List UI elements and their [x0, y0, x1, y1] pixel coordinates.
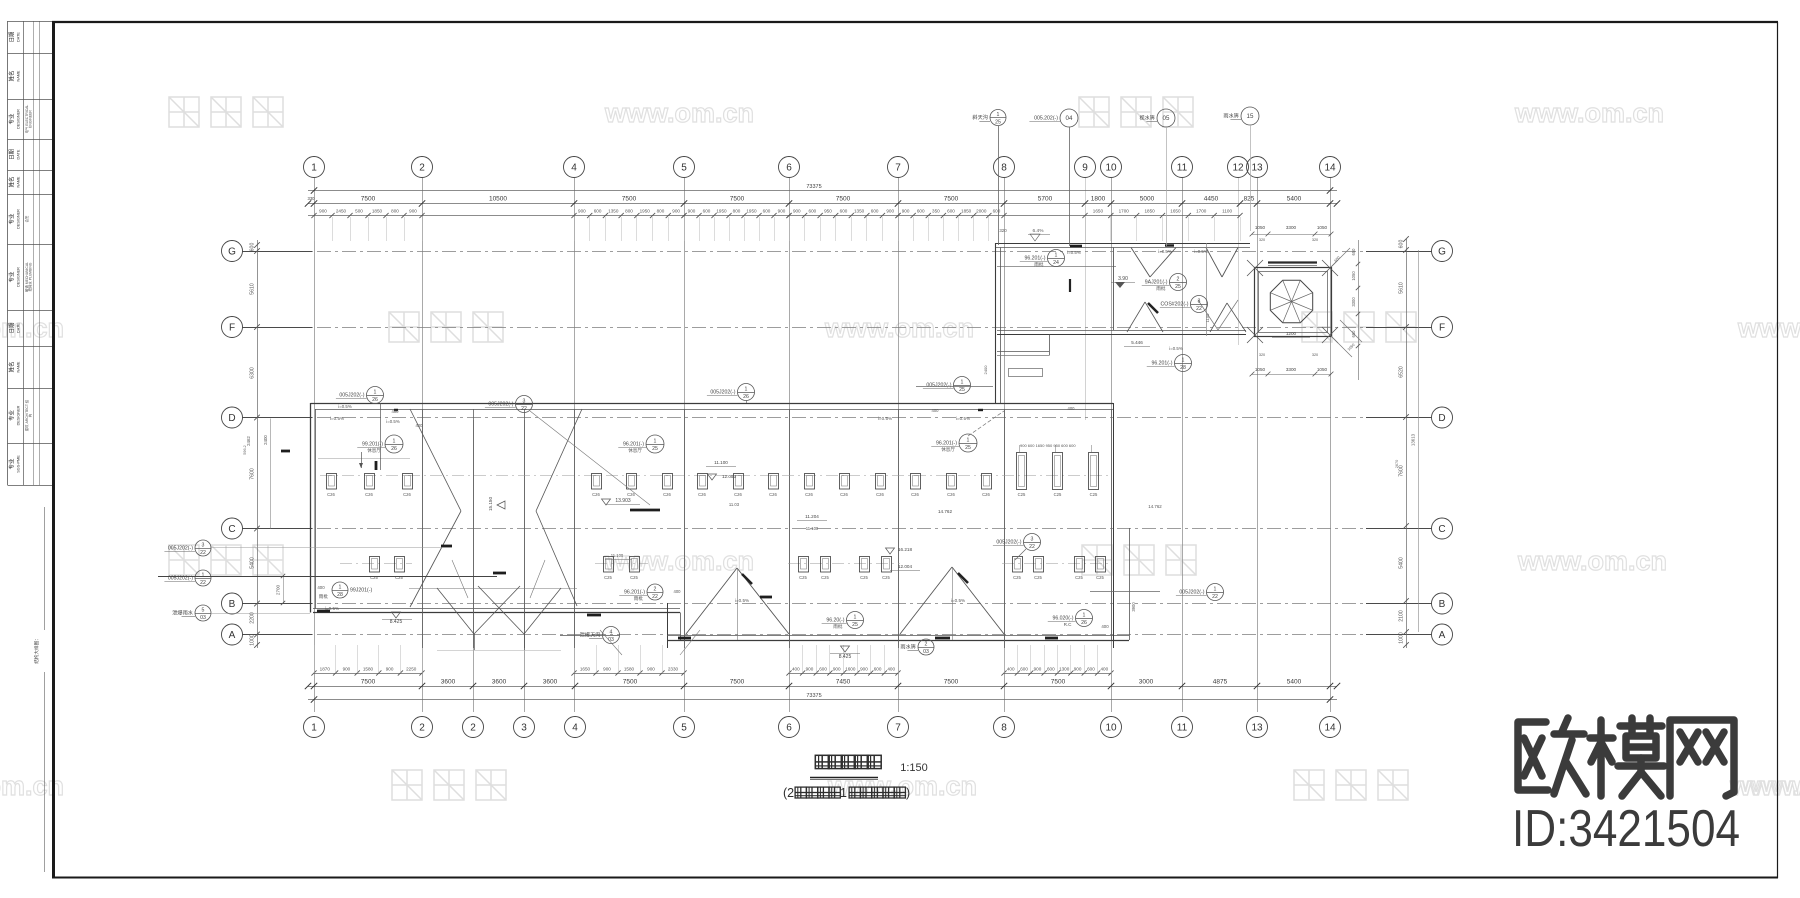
- svg-text:1350: 1350: [608, 209, 619, 214]
- site logo 欧模网: [1518, 718, 1734, 796]
- svg-text:22: 22: [521, 406, 527, 412]
- svg-text:900: 900: [902, 209, 910, 214]
- svg-text:2000: 2000: [976, 209, 987, 214]
- svg-text:400: 400: [1068, 406, 1076, 411]
- svg-text:900: 900: [578, 209, 586, 214]
- svg-text:7450: 7450: [836, 679, 851, 686]
- svg-text:C25: C25: [395, 575, 403, 580]
- svg-text:D: D: [228, 413, 235, 424]
- svg-text:22: 22: [1212, 594, 1218, 600]
- svg-text:C26: C26: [769, 492, 777, 497]
- svg-text:16.218: 16.218: [898, 547, 912, 552]
- svg-text:专业: 专业: [8, 410, 16, 421]
- svg-text:800: 800: [391, 209, 399, 214]
- building bottom edge left section: [313, 609, 680, 613]
- svg-text:3000: 3000: [1139, 679, 1154, 686]
- svg-text:11: 11: [1177, 722, 1188, 733]
- callout 005J202 1-25 at grid7: [923, 377, 971, 394]
- svg-text:15: 15: [1247, 113, 1254, 120]
- svg-text:14: 14: [1324, 162, 1336, 173]
- svg-text:650: 650: [1351, 248, 1356, 256]
- row bubble F left: [222, 317, 243, 338]
- svg-text:25: 25: [959, 387, 965, 393]
- svg-text:3: 3: [202, 542, 205, 548]
- grid bubble 13 top: [1247, 157, 1268, 178]
- svg-text:雨水箅: 雨水箅: [1223, 112, 1239, 120]
- site logo id number: [1512, 800, 1740, 858]
- svg-text:SGS-PME: SGS-PME: [17, 455, 21, 473]
- svg-text:6300: 6300: [250, 367, 256, 379]
- callout 05 top: [1139, 109, 1175, 127]
- svg-text:28: 28: [337, 592, 343, 598]
- svg-text:10: 10: [1105, 162, 1117, 173]
- svg-text:900: 900: [778, 209, 786, 214]
- svg-text:3600: 3600: [492, 679, 507, 686]
- svg-text:7500: 7500: [361, 196, 376, 203]
- svg-text:6: 6: [786, 722, 792, 733]
- tower dimension right column: [1351, 240, 1360, 380]
- svg-text:ENGINEER: ENGINEER: [29, 110, 33, 128]
- svg-text:7500: 7500: [944, 196, 959, 203]
- svg-text:www.om.cn: www.om.cn: [1517, 546, 1667, 576]
- callout 96.020 bottom right: [1048, 610, 1093, 628]
- svg-text:1050: 1050: [1317, 367, 1328, 372]
- svg-text:3.90: 3.90: [1118, 276, 1128, 282]
- grid bubble 8 bottom: [994, 717, 1015, 738]
- svg-text:D: D: [1438, 413, 1445, 424]
- svg-text:C25: C25: [799, 575, 807, 580]
- canopy edge and valleys below left section: [409, 586, 577, 650]
- svg-text:3: 3: [523, 398, 526, 404]
- callout 斜天沟 top: [972, 110, 1006, 126]
- grid bubble 3 bottom: [514, 717, 535, 738]
- left dimension column: [243, 240, 285, 648]
- svg-text:25: 25: [965, 445, 971, 451]
- watermark 欧模网: [169, 545, 283, 575]
- svg-text:i=0.5%: i=0.5%: [735, 598, 749, 603]
- svg-text:B: B: [1439, 599, 1446, 610]
- svg-text:900: 900: [1074, 667, 1082, 672]
- building right wall: [1114, 403, 1130, 648]
- callout 005J202 3-22: [485, 396, 533, 413]
- svg-text:2700: 2700: [276, 584, 281, 595]
- svg-text:2200: 2200: [250, 612, 256, 624]
- svg-text:i=0.5%: i=0.5%: [386, 419, 400, 424]
- drawing title 屋顶平面图 1:150: [810, 755, 928, 779]
- callout 99J201 bottom left: [319, 582, 373, 600]
- svg-text:12.053: 12.053: [722, 474, 736, 479]
- svg-text:22: 22: [200, 550, 206, 556]
- svg-text:C26: C26: [663, 492, 671, 497]
- svg-text:1: 1: [840, 786, 847, 800]
- svg-text:1: 1: [745, 386, 748, 392]
- svg-text:www.om.cn: www.om.cn: [824, 313, 974, 343]
- svg-text:005.202(-): 005.202(-): [1034, 116, 1058, 122]
- svg-text:1050: 1050: [1317, 225, 1328, 230]
- drawing subtitle: [783, 786, 910, 800]
- wing gutter tab: [1009, 369, 1043, 377]
- grid line dark segments inside building: [423, 409, 1112, 648]
- svg-text:900: 900: [886, 209, 894, 214]
- svg-text:900: 900: [793, 209, 801, 214]
- svg-text:i=0.5%: i=0.5%: [1067, 250, 1081, 255]
- svg-text:14.762: 14.762: [938, 509, 952, 514]
- svg-text:7500: 7500: [623, 679, 638, 686]
- svg-text:2: 2: [419, 162, 425, 173]
- svg-text:C26: C26: [592, 492, 600, 497]
- row bubble D left: [222, 407, 243, 428]
- svg-text:i=0.5%: i=0.5%: [878, 416, 892, 421]
- svg-text:12: 12: [1232, 162, 1244, 173]
- svg-text:1850: 1850: [372, 209, 383, 214]
- svg-text:4450: 4450: [1204, 196, 1219, 203]
- svg-text:1580: 1580: [363, 667, 374, 672]
- svg-text:400: 400: [1101, 624, 1109, 629]
- svg-text:3900: 3900: [1131, 602, 1136, 612]
- grid bubble 7 bottom: [888, 717, 909, 738]
- svg-text:(2: (2: [783, 786, 794, 800]
- svg-text:99.201(-): 99.201(-): [362, 442, 383, 448]
- svg-text:1950: 1950: [746, 209, 757, 214]
- building step wall at grid 5: [668, 603, 681, 648]
- svg-text:600: 600: [819, 667, 827, 672]
- svg-text:14: 14: [1324, 722, 1336, 733]
- vent row centerline 1: [320, 475, 1108, 477]
- svg-text:5: 5: [681, 162, 687, 173]
- svg-text:C25: C25: [1090, 492, 1098, 497]
- svg-text:1950: 1950: [716, 209, 727, 214]
- svg-text:G: G: [228, 246, 236, 257]
- svg-text:C26: C26: [734, 492, 742, 497]
- svg-text:96.201(-): 96.201(-): [936, 441, 957, 447]
- svg-text:900: 900: [806, 667, 814, 672]
- svg-text:600: 600: [1020, 667, 1028, 672]
- svg-text:5610: 5610: [1399, 282, 1405, 294]
- svg-text:雨枇: 雨枇: [319, 593, 329, 600]
- drain thick marks: [281, 451, 1058, 638]
- grid bubble 6 bottom: [779, 717, 800, 738]
- svg-text:NAME: NAME: [17, 70, 21, 81]
- svg-text:96.020(-): 96.020(-): [1052, 616, 1073, 622]
- svg-text:斜天沟: 斜天沟: [972, 113, 988, 121]
- svg-text:2450: 2450: [336, 209, 347, 214]
- watermark 欧模网: [169, 97, 283, 127]
- wing rain funnel V1: [1131, 248, 1176, 278]
- svg-text:900: 900: [343, 667, 351, 672]
- grid bubble 10 bottom: [1101, 717, 1122, 738]
- svg-text:11: 11: [1177, 162, 1188, 173]
- svg-text:005J202(-): 005J202(-): [339, 393, 364, 399]
- svg-text:1050: 1050: [1255, 367, 1266, 372]
- svg-text:320: 320: [1259, 353, 1265, 357]
- svg-text:i=0.5%: i=0.5%: [330, 416, 344, 421]
- svg-text:1: 1: [967, 437, 970, 443]
- row bubble C right: [1432, 518, 1453, 539]
- bottom dimension chain minor: [311, 645, 1113, 676]
- svg-text:2250: 2250: [406, 667, 417, 672]
- svg-text:11.204: 11.204: [805, 514, 819, 519]
- svg-text:900: 900: [386, 667, 394, 672]
- svg-text:400: 400: [674, 589, 682, 594]
- svg-text:13613: 13613: [1411, 433, 1416, 446]
- svg-text:专业: 专业: [8, 213, 16, 224]
- svg-text:25: 25: [1175, 284, 1181, 290]
- svg-text:3600: 3600: [543, 679, 558, 686]
- svg-text:1850: 1850: [1144, 209, 1155, 214]
- svg-text:1800: 1800: [1091, 196, 1106, 203]
- watermark 欧模网: [1082, 545, 1196, 575]
- svg-text:8: 8: [1001, 722, 1007, 733]
- watermark 欧模网: [392, 770, 506, 800]
- svg-text:DATE: DATE: [17, 323, 21, 333]
- svg-text:400: 400: [887, 667, 895, 672]
- top dimension chain overall: [308, 184, 1337, 194]
- svg-text:350: 350: [932, 209, 940, 214]
- svg-text:休息厅: 休息厅: [941, 446, 955, 453]
- svg-text:姓名: 姓名: [8, 71, 16, 82]
- svg-text:DESIGNER: DESIGNER: [17, 209, 21, 229]
- svg-text:NAME: NAME: [17, 361, 21, 372]
- svg-text:3300: 3300: [1286, 225, 1297, 230]
- svg-text:7500: 7500: [622, 196, 637, 203]
- svg-text:8: 8: [1001, 162, 1007, 173]
- fold line with label: [33, 507, 45, 872]
- row bubble B right: [1432, 593, 1453, 614]
- svg-text:7: 7: [895, 722, 901, 733]
- svg-text:2400: 2400: [263, 435, 268, 445]
- grid bubble 14 bottom: [1320, 717, 1341, 738]
- grid bubble 2 bottom: [412, 717, 433, 738]
- watermark 欧模网: [1294, 770, 1408, 800]
- svg-text:): ): [906, 786, 910, 800]
- svg-text:22: 22: [1029, 544, 1035, 550]
- svg-text:日期: 日期: [9, 149, 16, 160]
- svg-text:1580: 1580: [624, 667, 635, 672]
- svg-text:13: 13: [1251, 162, 1263, 173]
- svg-text:i=0.5%: i=0.5%: [338, 404, 352, 409]
- svg-text:2462: 2462: [246, 436, 251, 446]
- svg-text:C25: C25: [1096, 575, 1104, 580]
- svg-text:C: C: [228, 524, 235, 535]
- watermark 欧模网: [389, 312, 503, 342]
- callout 005.202 04 top: [1029, 109, 1078, 127]
- svg-text:900: 900: [860, 667, 868, 672]
- grid bubble 10 top: [1101, 157, 1122, 178]
- row bubble A right: [1432, 624, 1453, 645]
- building parapet top edge: [311, 404, 1114, 410]
- svg-text:800: 800: [733, 209, 741, 214]
- svg-text:i=0.5%: i=0.5%: [1194, 249, 1208, 254]
- svg-text:9AJ201(-): 9AJ201(-): [1145, 280, 1168, 286]
- svg-text:04: 04: [1066, 115, 1073, 122]
- grid bubble 14 top: [1320, 157, 1341, 178]
- svg-text:73375: 73375: [806, 184, 821, 190]
- svg-text:26: 26: [743, 394, 749, 400]
- svg-text:96.20(-): 96.20(-): [826, 618, 844, 624]
- svg-text:900: 900: [603, 667, 611, 672]
- wing top roof band: [995, 244, 1250, 267]
- svg-text:330: 330: [308, 196, 316, 201]
- svg-text:DESIGNER: DESIGNER: [17, 109, 21, 129]
- svg-text:C26: C26: [365, 492, 373, 497]
- svg-text:11.100: 11.100: [714, 460, 728, 465]
- tall roof vents near grid 8: [1017, 443, 1099, 497]
- svg-text:600: 600: [947, 209, 955, 214]
- svg-text:C25: C25: [882, 575, 890, 580]
- callout 雨水箅 2-03 bottom: [900, 639, 934, 655]
- svg-text:www.om.cn: www.om.cn: [604, 98, 754, 128]
- grid bubble 12 top: [1228, 157, 1249, 178]
- svg-text:ID:3421504: ID:3421504: [1512, 800, 1740, 858]
- wing left wall: [996, 243, 1001, 403]
- tower octagon roof: [1270, 280, 1312, 322]
- svg-text:7600: 7600: [250, 468, 256, 480]
- grid bubble 1 top: [304, 157, 325, 178]
- bottom overall dimension: [308, 693, 1337, 703]
- svg-text:600: 600: [993, 209, 1001, 214]
- svg-text:C26: C26: [947, 492, 955, 497]
- svg-text:5400: 5400: [250, 557, 256, 569]
- svg-text:25: 25: [852, 622, 858, 628]
- svg-text:600: 600: [840, 209, 848, 214]
- svg-text:400: 400: [1100, 667, 1108, 672]
- row bubble F right: [1432, 317, 1453, 338]
- svg-text:日期: 日期: [9, 32, 16, 43]
- svg-text:005J202(-): 005J202(-): [1179, 590, 1204, 596]
- level flags and slope labels: [325, 228, 1208, 660]
- svg-text:900: 900: [688, 209, 696, 214]
- svg-text:5700: 5700: [1038, 196, 1053, 203]
- grid bubble 2 bottom: [463, 717, 484, 738]
- svg-text:2330: 2330: [668, 667, 679, 672]
- svg-text:雨枇: 雨枇: [1034, 261, 1044, 268]
- svg-text:日期: 日期: [9, 323, 16, 334]
- svg-text:900: 900: [833, 667, 841, 672]
- svg-text:1: 1: [339, 584, 342, 590]
- svg-text:6520: 6520: [1399, 366, 1405, 378]
- svg-text:600: 600: [1087, 667, 1095, 672]
- svg-text:400: 400: [1007, 667, 1015, 672]
- svg-text:14.762: 14.762: [1148, 504, 1162, 509]
- svg-text:320: 320: [999, 228, 1007, 233]
- svg-text:26: 26: [372, 397, 378, 403]
- svg-text:600: 600: [763, 209, 771, 214]
- svg-text:1: 1: [1182, 357, 1185, 363]
- svg-text:1300: 1300: [1059, 667, 1070, 672]
- svg-text:3: 3: [1031, 536, 1034, 542]
- svg-text:雨枇: 雨枇: [833, 623, 843, 630]
- vertical grid lines: [315, 178, 1331, 712]
- svg-text:C26: C26: [327, 492, 335, 497]
- svg-text:600: 600: [250, 243, 256, 252]
- svg-text:1950: 1950: [640, 209, 651, 214]
- callout 05b top: [1223, 107, 1259, 125]
- svg-text:12.004: 12.004: [898, 564, 912, 569]
- svg-text:COS#202(-): COS#202(-): [1161, 302, 1189, 308]
- svg-text:1600: 1600: [845, 667, 856, 672]
- svg-text:C26: C26: [805, 492, 813, 497]
- building left wall: [311, 403, 316, 613]
- svg-text:i=0.5%: i=0.5%: [951, 598, 965, 603]
- svg-text:B: B: [229, 599, 236, 610]
- grid bubble 1 bottom: [304, 717, 325, 738]
- svg-text:7500: 7500: [836, 196, 851, 203]
- svg-text:1050: 1050: [1351, 271, 1356, 281]
- svg-text:24: 24: [1053, 260, 1059, 266]
- svg-text:25: 25: [652, 446, 658, 452]
- svg-text:03: 03: [923, 649, 929, 655]
- svg-text:600: 600: [809, 209, 817, 214]
- svg-text:4875: 4875: [1213, 679, 1228, 686]
- svg-text:400: 400: [392, 409, 400, 414]
- row bubble D right: [1432, 407, 1453, 428]
- svg-text:DATE: DATE: [17, 149, 21, 159]
- svg-text:96.201(-): 96.201(-): [624, 590, 645, 596]
- svg-text:96.201(-): 96.201(-): [623, 442, 644, 448]
- svg-text:1000: 1000: [1399, 632, 1405, 644]
- svg-text:i=0.5%: i=0.5%: [1158, 249, 1172, 254]
- svg-text:C26: C26: [403, 492, 411, 497]
- grid bubble 13 bottom: [1247, 717, 1268, 738]
- wing lower band: [997, 331, 1246, 356]
- svg-text:800: 800: [625, 209, 633, 214]
- svg-text:22: 22: [652, 594, 658, 600]
- svg-text:1850: 1850: [961, 209, 972, 214]
- svg-text:C: C: [1438, 524, 1445, 535]
- svg-text:A: A: [1439, 630, 1446, 641]
- grid bubble 4 bottom: [565, 717, 586, 738]
- svg-text:泄爆天沟: 泄爆天沟: [580, 631, 601, 639]
- callout wing 96.201 1-28: [1147, 355, 1192, 372]
- svg-text:C25: C25: [860, 575, 868, 580]
- callout 泄爆雨水 A row: [580, 627, 620, 644]
- svg-text:C26: C26: [840, 492, 848, 497]
- callout left edge 3-22: [164, 540, 211, 556]
- roof slope chevrons left section: [318, 409, 582, 651]
- svg-text:5.446: 5.446: [1131, 340, 1143, 345]
- svg-text:96.201(-): 96.201(-): [1024, 256, 1045, 262]
- svg-text:8.425: 8.425: [839, 654, 852, 660]
- svg-text:休息厅: 休息厅: [628, 447, 642, 454]
- svg-text:950: 950: [824, 209, 832, 214]
- svg-text:3600: 3600: [441, 679, 456, 686]
- svg-text:会签: 会签: [24, 215, 29, 222]
- svg-text:596.2: 596.2: [243, 445, 247, 455]
- svg-text:600: 600: [703, 209, 711, 214]
- svg-text:雨枇: 雨枇: [1156, 285, 1166, 292]
- svg-text:1650: 1650: [1093, 209, 1104, 214]
- svg-text:1: 1: [374, 389, 377, 395]
- tower dimension top: [1250, 225, 1334, 242]
- svg-text:7500: 7500: [1051, 679, 1066, 686]
- roof vents row 2: [370, 557, 1106, 581]
- svg-text:7500: 7500: [944, 679, 959, 686]
- tower diagonal dims: [1205, 248, 1362, 357]
- svg-text:F: F: [229, 322, 235, 333]
- svg-text:4: 4: [610, 629, 613, 635]
- svg-text:1: 1: [1214, 586, 1217, 592]
- svg-text:1700: 1700: [1196, 209, 1207, 214]
- svg-text:26: 26: [1081, 620, 1087, 626]
- svg-text:C26: C26: [982, 492, 990, 497]
- callout 005J202 3-22 grid8: [993, 534, 1041, 551]
- svg-text:400: 400: [416, 423, 424, 428]
- svg-text:www.om.cn: www.om.cn: [1739, 771, 1800, 801]
- svg-text:22: 22: [200, 580, 206, 586]
- title block strip: [8, 21, 53, 486]
- svg-text:3300: 3300: [1351, 297, 1356, 307]
- svg-text:1700: 1700: [1119, 209, 1130, 214]
